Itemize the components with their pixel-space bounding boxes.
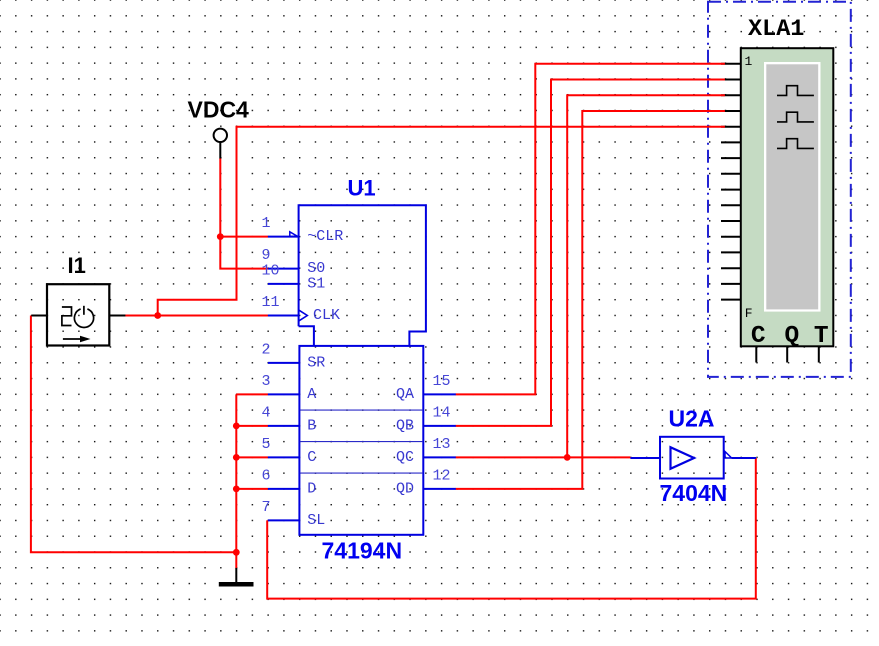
svg-text:B: B bbox=[307, 417, 316, 434]
svg-text:C: C bbox=[307, 449, 316, 466]
svg-text:QC: QC bbox=[396, 449, 414, 466]
svg-text:C: C bbox=[751, 323, 766, 350]
svg-text:2: 2 bbox=[262, 341, 271, 358]
svg-text:A: A bbox=[307, 386, 316, 403]
svg-text:14: 14 bbox=[433, 404, 451, 421]
svg-text:S1: S1 bbox=[307, 275, 325, 292]
svg-text:74194N: 74194N bbox=[322, 538, 403, 564]
svg-text:QA: QA bbox=[396, 386, 414, 403]
svg-text:XLA1: XLA1 bbox=[748, 16, 804, 43]
svg-text:F: F bbox=[745, 306, 753, 321]
svg-text:SR: SR bbox=[307, 354, 325, 371]
svg-text:T: T bbox=[814, 323, 829, 350]
svg-text:VDC4: VDC4 bbox=[188, 97, 250, 123]
svg-text:Q: Q bbox=[784, 323, 799, 350]
svg-text:D: D bbox=[307, 480, 316, 497]
svg-text:U2A: U2A bbox=[669, 405, 715, 431]
svg-text:12: 12 bbox=[433, 467, 451, 484]
svg-text:5: 5 bbox=[262, 436, 271, 453]
svg-text:7404N: 7404N bbox=[660, 480, 728, 506]
svg-text:11: 11 bbox=[262, 294, 280, 311]
svg-text:1: 1 bbox=[745, 54, 753, 69]
svg-text:10: 10 bbox=[262, 262, 280, 279]
svg-text:6: 6 bbox=[262, 467, 271, 484]
svg-text:QB: QB bbox=[396, 417, 414, 434]
svg-text:3: 3 bbox=[262, 373, 271, 390]
svg-text:15: 15 bbox=[433, 373, 451, 390]
svg-text:CLK: CLK bbox=[313, 307, 340, 324]
svg-text:13: 13 bbox=[433, 436, 451, 453]
svg-text:SL: SL bbox=[307, 512, 325, 529]
svg-text:4: 4 bbox=[262, 404, 271, 421]
svg-text:I1: I1 bbox=[68, 253, 86, 278]
svg-text:1: 1 bbox=[262, 215, 271, 232]
svg-text:~CLR: ~CLR bbox=[307, 228, 343, 245]
svg-text:7: 7 bbox=[262, 499, 271, 516]
svg-text:QD: QD bbox=[396, 480, 414, 497]
svg-text:U1: U1 bbox=[348, 176, 376, 201]
